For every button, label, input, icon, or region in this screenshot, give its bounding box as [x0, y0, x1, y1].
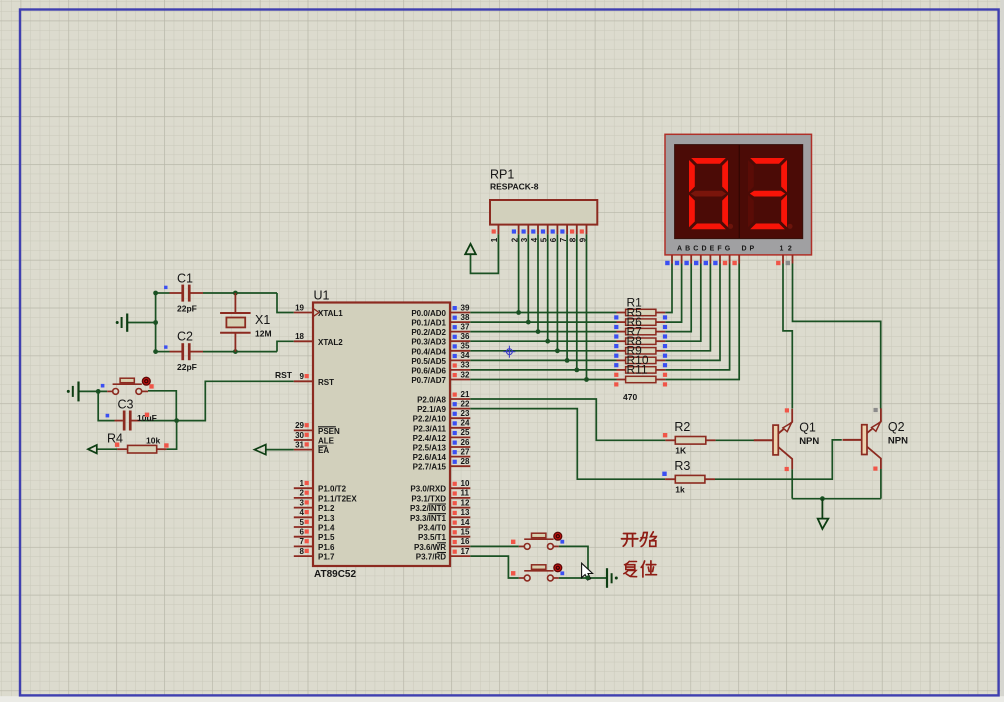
svg-text:7: 7	[300, 537, 305, 546]
svg-text:Q2: Q2	[888, 420, 905, 434]
left digit 0	[691, 158, 726, 164]
wire R6 right to display pin	[665, 264, 691, 332]
svg-text:16: 16	[461, 537, 470, 546]
svg-text:28: 28	[461, 457, 470, 466]
resistor R4 10k	[117, 448, 128, 450]
svg-text:C1: C1	[177, 272, 193, 286]
resistor R7	[617, 340, 626, 342]
svg-text:P1.6: P1.6	[318, 543, 335, 552]
wire R2 to Q1 base	[716, 439, 754, 441]
svg-text:2: 2	[300, 489, 305, 498]
svg-text:24: 24	[461, 419, 470, 428]
svg-text:39: 39	[461, 303, 470, 312]
push button (reset to VCC) near C3	[107, 390, 113, 392]
RP1 pin stubs, squares, rotated numbers	[497, 225, 499, 235]
7-segment dual display (shows 03)	[665, 134, 812, 255]
svg-text:36: 36	[461, 332, 470, 341]
XTAL1 clock input marker	[314, 309, 320, 317]
resistor R5	[617, 321, 626, 323]
junction C2 left	[153, 349, 158, 354]
svg-text:1K: 1K	[675, 446, 687, 456]
svg-text:EA: EA	[318, 446, 329, 455]
ground (earth bar) left of C1/C2	[116, 321, 119, 324]
svg-text:RESPACK-8: RESPACK-8	[490, 182, 539, 192]
svg-text:R11: R11	[627, 363, 648, 377]
push button start (P3.6)	[519, 545, 525, 547]
wire C3 right stub to junction	[140, 420, 176, 422]
wire button right to junction	[148, 391, 176, 421]
wire ground to button left	[79, 390, 107, 392]
svg-text:P0.3/AD3: P0.3/AD3	[411, 338, 446, 347]
crystal X1 12M	[234, 293, 236, 313]
svg-text:29: 29	[295, 421, 304, 430]
wires P0.0-P0.7 from U1 to resistor pack	[470, 312, 616, 314]
svg-text:15: 15	[461, 528, 470, 537]
svg-text:AT89C52: AT89C52	[314, 569, 356, 580]
transistor Q2 NPN	[843, 439, 862, 441]
svg-text:470: 470	[623, 392, 637, 402]
resistor pack RP1 RESPACK-8 body	[490, 200, 597, 225]
svg-text:34: 34	[461, 351, 470, 360]
svg-text:P2.1/A9: P2.1/A9	[417, 405, 446, 414]
svg-text:RST: RST	[275, 370, 293, 380]
svg-text:27: 27	[461, 447, 470, 456]
junction C1 left	[153, 291, 158, 296]
capacitor C2	[170, 351, 182, 353]
junction RST/C3/button/R4	[174, 418, 179, 423]
junction ground/C1C2	[153, 320, 158, 325]
wire R9 right to display pin	[665, 264, 720, 361]
svg-text:17: 17	[461, 547, 470, 556]
svg-text:23: 23	[461, 409, 470, 418]
svg-text:NPN: NPN	[799, 436, 819, 447]
svg-text:P0.0/AD0: P0.0/AD0	[411, 309, 446, 318]
wire XTAL2 net: C2/X1 bottom to pin 18	[156, 351, 170, 353]
wire display pin 1 to Q1 collector	[783, 264, 792, 409]
origin crosshair marker	[507, 349, 513, 355]
svg-text:P2.3/A11: P2.3/A11	[413, 424, 446, 433]
svg-text:1: 1	[300, 479, 305, 488]
wire R5 right to display pin	[665, 264, 681, 323]
svg-text:P2.6/A14: P2.6/A14	[413, 453, 447, 462]
svg-text:P3.1/TXD: P3.1/TXD	[411, 494, 446, 503]
wire EA pin 31 to ground arrow	[266, 449, 294, 451]
wire Q1 emitter down	[791, 469, 793, 498]
svg-text:33: 33	[461, 361, 470, 370]
svg-text:30: 30	[295, 431, 304, 440]
wire P3.6 pin 16 to start button	[470, 545, 519, 547]
svg-text:10k: 10k	[146, 436, 160, 446]
junction X1 bottom	[233, 349, 238, 354]
wire reset button right to ground	[559, 577, 607, 579]
resistor R9	[617, 359, 626, 361]
svg-text:XTAL2: XTAL2	[318, 338, 343, 347]
svg-text:1: 1	[780, 245, 784, 252]
ground (arrow) at EA	[255, 445, 266, 455]
svg-text:P0.1/AD1: P0.1/AD1	[411, 319, 446, 328]
svg-text:22pF: 22pF	[177, 362, 197, 372]
push button reset (P3.7)	[519, 577, 525, 579]
svg-text:ALE: ALE	[318, 437, 335, 446]
svg-text:22: 22	[461, 399, 470, 408]
capacitor C1	[170, 292, 182, 294]
svg-text:P1.7: P1.7	[318, 553, 335, 562]
svg-text:P1.2: P1.2	[318, 504, 335, 513]
junction emitters	[820, 496, 825, 501]
resistor R2 1K	[665, 439, 675, 441]
svg-text:U1: U1	[314, 289, 330, 303]
resistor R1	[617, 312, 626, 314]
power symbol (up arrow) at RP1 pin 1	[465, 244, 476, 254]
svg-text:ABCDEFG: ABCDEFG	[677, 245, 733, 252]
svg-text:P3.2/INT0: P3.2/INT0	[410, 504, 447, 513]
svg-text:P3.6/WR: P3.6/WR	[414, 543, 446, 552]
display segment pin stubs and squares	[671, 255, 673, 264]
svg-text:P2.5/A13: P2.5/A13	[413, 444, 447, 453]
svg-text:P0.7/AD7: P0.7/AD7	[411, 376, 446, 385]
wire RST net: pin 9 to C3/button junction	[177, 381, 294, 420]
svg-text:RP1: RP1	[490, 168, 514, 182]
wire Q2 emitter down	[880, 469, 882, 499]
svg-text:R2: R2	[674, 420, 690, 434]
wire R11 right to display pin	[665, 264, 739, 380]
svg-text:21: 21	[461, 390, 470, 399]
resistor R10	[617, 369, 626, 371]
svg-text:12: 12	[461, 498, 470, 507]
decimal points	[728, 224, 733, 229]
wire button-left junction down to C3 left	[98, 391, 114, 420]
wire RP1 pin1 to power arrow	[471, 234, 499, 273]
junction X1 top	[233, 291, 238, 296]
ground (arrow) left of R4	[88, 445, 97, 453]
svg-text:32: 32	[461, 370, 470, 379]
label 开始 (start)	[622, 534, 638, 547]
svg-text:PSEN: PSEN	[318, 427, 340, 436]
svg-text:P3.5/T1: P3.5/T1	[418, 533, 447, 542]
svg-text:P3.4/T0: P3.4/T0	[418, 524, 447, 533]
svg-text:8: 8	[300, 547, 305, 556]
svg-text:2: 2	[788, 245, 792, 252]
svg-text:6: 6	[300, 528, 305, 537]
IC U1 AT89C52	[313, 303, 450, 567]
svg-text:5: 5	[300, 518, 305, 527]
U1 left pin stubs, numbers and pin squares	[294, 312, 313, 314]
wire R7 right to display pin	[665, 264, 701, 342]
svg-text:3: 3	[300, 498, 305, 507]
svg-text:XTAL1: XTAL1	[318, 309, 343, 318]
svg-text:NPN: NPN	[888, 436, 908, 447]
mouse cursor	[582, 563, 593, 580]
svg-text:C3: C3	[118, 398, 134, 412]
svg-text:31: 31	[295, 440, 304, 449]
wire R3 to Q2 base	[715, 440, 842, 479]
wire XTAL1 net: C1/X1 top to pin 19	[156, 292, 170, 294]
wire ground to C1/C2 junction	[127, 322, 155, 324]
svg-text:P0.2/AD2: P0.2/AD2	[411, 328, 446, 337]
svg-text:P1.1/T2EX: P1.1/T2EX	[318, 494, 357, 503]
svg-text:26: 26	[461, 438, 470, 447]
junction buttons common	[585, 576, 590, 581]
svg-text:9: 9	[300, 372, 305, 381]
right digit 3	[750, 158, 785, 164]
capacitor C3 10uF	[115, 420, 123, 422]
svg-text:P1.4: P1.4	[318, 524, 335, 533]
svg-text:1k: 1k	[675, 485, 685, 495]
wire P3.7 pin 17 to reset button	[470, 556, 519, 578]
svg-text:X1: X1	[255, 313, 270, 327]
label 复位 (reset)	[624, 561, 637, 576]
svg-text:P2.2/A10: P2.2/A10	[413, 415, 447, 424]
svg-text:13: 13	[461, 508, 470, 517]
svg-text:P0.6/AD6: P0.6/AD6	[411, 366, 446, 375]
svg-text:P3.0/RXD: P3.0/RXD	[410, 485, 446, 494]
ground (earth bar) right of buttons	[606, 568, 608, 588]
wire R1 right to display pin	[665, 264, 672, 313]
wire P2.0 pin 21 to R2	[470, 399, 665, 440]
wires RP1 pins 2-9 down to P0 bus junctions	[518, 234, 520, 312]
svg-text:14: 14	[461, 518, 470, 527]
svg-text:4: 4	[300, 508, 305, 517]
svg-text:P3.3/INT1: P3.3/INT1	[410, 514, 447, 523]
display common pin stubs 1,2	[782, 255, 784, 264]
wire emitter common rail	[792, 498, 881, 500]
wire P2.1 pin 22 to R3	[470, 409, 665, 480]
svg-text:P0.4/AD4: P0.4/AD4	[411, 347, 446, 356]
svg-text:18: 18	[295, 332, 304, 341]
wire junction down to R4 right	[166, 421, 176, 450]
svg-text:P0.5/AD5: P0.5/AD5	[411, 357, 446, 366]
svg-text:25: 25	[461, 428, 470, 437]
wire R8 right to display pin	[665, 264, 710, 351]
resistor R8	[617, 350, 626, 352]
svg-text:P1.3: P1.3	[318, 514, 335, 523]
svg-text:12M: 12M	[255, 329, 272, 339]
svg-text:P2.4/A12: P2.4/A12	[413, 434, 447, 443]
svg-text:DP: DP	[742, 245, 758, 252]
svg-text:R3: R3	[674, 459, 690, 473]
svg-text:P1.5: P1.5	[318, 533, 335, 542]
U1 right pin stubs, numbers and pin squares	[450, 312, 470, 314]
wire display pin 2 to Q2 collector	[793, 264, 881, 409]
svg-text:11: 11	[461, 489, 470, 498]
junction button left	[96, 389, 101, 394]
svg-text:P1.0/T2: P1.0/T2	[318, 485, 347, 494]
svg-text:37: 37	[461, 322, 470, 331]
svg-text:22pF: 22pF	[177, 304, 197, 314]
svg-text:P2.7/A15: P2.7/A15	[413, 463, 447, 472]
svg-text:P2.0/A8: P2.0/A8	[417, 396, 446, 405]
transistor Q1 NPN	[754, 439, 773, 441]
svg-text:10: 10	[461, 479, 470, 488]
wire R4 left to ground arrow	[97, 448, 118, 450]
svg-text:C2: C2	[177, 330, 193, 344]
wire start button right, down to reset net	[559, 546, 588, 578]
svg-text:19: 19	[295, 303, 304, 312]
resistor R3 1k	[665, 478, 675, 480]
svg-text:Q1: Q1	[799, 420, 816, 434]
wire R10 right to display pin	[665, 264, 729, 370]
resistor R11	[617, 379, 626, 381]
resistor R6	[617, 331, 626, 333]
svg-text:35: 35	[461, 342, 470, 351]
ground (down arrow) below emitters	[821, 499, 823, 519]
wire C1-C2 left junction column	[155, 293, 157, 352]
svg-text:RST: RST	[318, 378, 334, 387]
svg-text:38: 38	[461, 313, 470, 322]
svg-text:P3.7/RD: P3.7/RD	[416, 553, 446, 562]
ground (earth bar) left of reset button	[67, 390, 70, 393]
